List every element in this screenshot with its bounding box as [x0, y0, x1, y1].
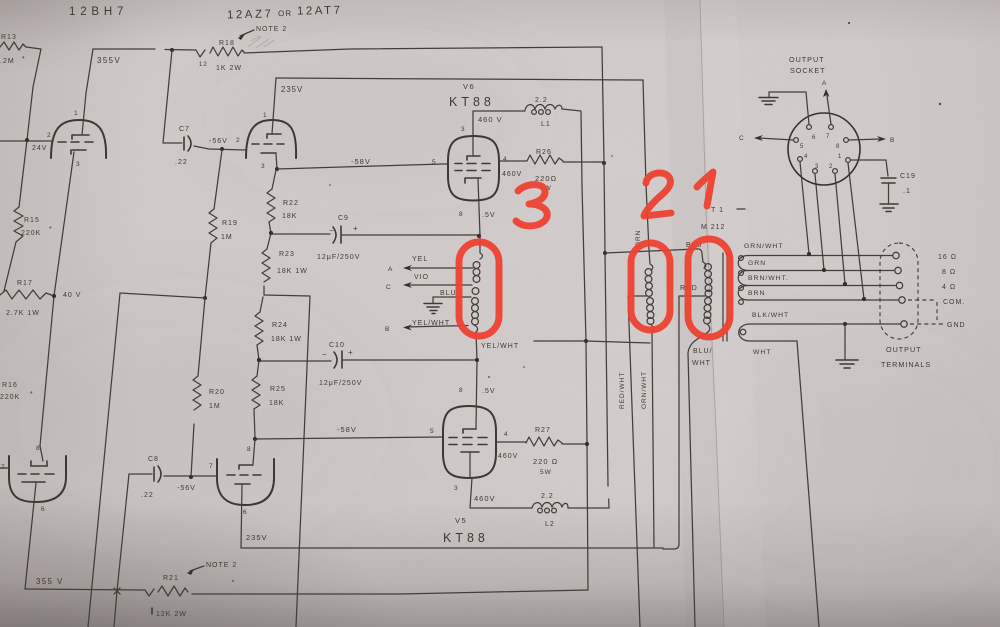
svg-text:R20: R20 — [209, 389, 225, 396]
svg-text:18K 1W: 18K 1W — [271, 336, 302, 343]
wire 235V bottom line — [241, 533, 663, 548]
tube V5 KT88 — [443, 406, 496, 545]
V2 grid dashes — [252, 143, 284, 145]
svg-text:12: 12 — [199, 62, 208, 68]
resistor R22 — [267, 170, 299, 233]
V6 cathode — [465, 178, 481, 183]
capacitor C7 — [163, 50, 191, 166]
red circle BLU coil — [688, 239, 730, 337]
svg-text:1M: 1M — [209, 403, 221, 410]
socket pin 6 — [807, 125, 817, 141]
svg-text:8: 8 — [836, 144, 840, 150]
svg-text:*: * — [49, 226, 53, 233]
V5 cathode — [461, 451, 479, 453]
svg-text:3: 3 — [76, 161, 81, 168]
svg-text:R18: R18 — [219, 40, 235, 47]
svg-text:16 Ω: 16 Ω — [938, 254, 957, 261]
svg-text:*: * — [22, 56, 26, 63]
resistor R16 — [0, 382, 34, 468]
wire B+ riser to L2 — [568, 47, 609, 508]
svg-text:RED/WHT: RED/WHT — [619, 372, 626, 409]
svg-text:+: + — [353, 224, 359, 233]
resistor R20 — [191, 298, 225, 477]
svg-text:C9: C9 — [338, 215, 349, 222]
junction grid bias — [220, 147, 224, 151]
tube V1 12BH7 upper half — [47, 110, 106, 168]
svg-text:BLK/WHT: BLK/WHT — [752, 312, 789, 319]
svg-text:12K 2W: 12K 2W — [156, 611, 187, 618]
svg-text:8: 8 — [459, 387, 464, 394]
red mark 3 — [516, 185, 547, 226]
secondary winding upper — [738, 256, 898, 305]
svg-text:12AT7: 12AT7 — [297, 4, 343, 17]
svg-text:OUTPUT: OUTPUT — [886, 345, 922, 354]
red circle ORN coil — [631, 243, 670, 330]
svg-text:8 Ω: 8 Ω — [942, 269, 956, 276]
svg-text:OR: OR — [278, 9, 292, 18]
wire C7 to pin2 grid with -56V — [194, 137, 246, 150]
svg-text:BRN: BRN — [748, 290, 765, 297]
junction x C8 lead — [114, 588, 120, 594]
node R27 / rail — [585, 442, 589, 446]
svg-text:4: 4 — [504, 431, 509, 438]
svg-text:5: 5 — [800, 144, 804, 150]
svg-text:.5V: .5V — [482, 212, 496, 219]
svg-text:WHT: WHT — [692, 360, 711, 367]
svg-text:7: 7 — [826, 134, 830, 140]
wire phase splitter stub — [88, 293, 205, 627]
node -58V / R25 — [253, 437, 257, 441]
resistor R26 — [500, 149, 604, 192]
paper crease — [664, 0, 766, 627]
capacitor C9 — [271, 215, 478, 261]
V4 grid dashes — [227, 474, 261, 476]
svg-text:2: 2 — [47, 132, 52, 139]
svg-text:235V: 235V — [281, 85, 303, 94]
wire V6 cathode to coil — [459, 179, 496, 236]
svg-text:5: 5 — [430, 428, 435, 435]
svg-text:GND: GND — [947, 322, 966, 329]
socket pin 1 — [838, 154, 850, 162]
svg-text:A: A — [388, 266, 393, 273]
svg-text:12AZ7: 12AZ7 — [227, 8, 274, 21]
capacitor C10 — [259, 342, 477, 387]
V6 grid dashes — [455, 164, 490, 171]
svg-text:−: − — [322, 350, 328, 359]
socket pin 5 — [794, 138, 805, 150]
svg-text:18K: 18K — [282, 213, 297, 220]
svg-text:R24: R24 — [272, 322, 288, 329]
transformer core lines — [723, 253, 727, 341]
pencil scribble near R18 — [248, 36, 274, 48]
svg-text:B: B — [890, 137, 895, 144]
svg-text:*: * — [30, 391, 34, 398]
V5 plate — [463, 429, 476, 433]
socket pin 7 — [826, 125, 833, 140]
svg-text:.1: .1 — [903, 188, 911, 195]
svg-text:SOCKET: SOCKET — [790, 66, 826, 75]
svg-text:C8: C8 — [148, 456, 159, 463]
wire R21 to B+ riser — [192, 590, 588, 594]
svg-text:YEL/WHT: YEL/WHT — [481, 343, 519, 350]
capacitor C8 — [114, 456, 161, 627]
svg-text:M 212: M 212 — [701, 224, 725, 231]
svg-text:C7: C7 — [179, 126, 190, 133]
inductor L2 — [532, 493, 568, 528]
svg-text:3: 3 — [815, 164, 819, 170]
node C10 right / coil bottom — [475, 358, 479, 362]
capacitor C19 — [851, 160, 916, 212]
resistor R24 — [255, 297, 302, 360]
terminal 16 ohm — [893, 252, 957, 261]
red circle YEL coil — [459, 242, 499, 336]
svg-text:BLU: BLU — [440, 290, 457, 297]
resistor R17 — [0, 280, 54, 317]
node R24/R25/C10 — [257, 358, 261, 362]
svg-text:6: 6 — [243, 509, 248, 516]
svg-text:R16: R16 — [2, 382, 18, 389]
wire L2 to V5 pin3 — [454, 478, 532, 508]
svg-text:2.7K 1W: 2.7K 1W — [6, 310, 40, 317]
wire R13 to R15 via 24V node — [19, 47, 41, 207]
svg-text:.22: .22 — [141, 492, 154, 499]
svg-text:R27: R27 — [535, 427, 551, 434]
resistor R25 — [252, 360, 286, 438]
svg-text:40 V: 40 V — [63, 292, 81, 299]
svg-text:6: 6 — [41, 506, 46, 513]
socket pin 3 — [813, 164, 820, 173]
svg-text:18K 1W: 18K 1W — [277, 268, 308, 275]
wire V4 cathode to 235V line — [241, 485, 242, 548]
coil T1 primary BLU — [688, 262, 712, 627]
inductor L1 — [525, 97, 562, 128]
svg-text:R23: R23 — [279, 251, 295, 258]
node C10 left — [257, 358, 261, 362]
svg-text:4: 4 — [804, 154, 808, 160]
wire WHT down — [797, 341, 819, 627]
wire C8 to pin7 with -56V — [164, 476, 217, 492]
resistor R15 — [14, 207, 53, 242]
svg-text:+: + — [348, 348, 354, 357]
arrow B — [849, 136, 895, 144]
wire 235V plate to ORN coil — [643, 80, 650, 264]
node 4ohm row — [843, 282, 847, 286]
tube V3 12BH7 lower half — [1, 445, 66, 513]
wire R18 to B+ corner — [244, 47, 602, 53]
tap B YEL/WHT — [385, 320, 468, 333]
svg-text:C: C — [386, 284, 392, 291]
svg-text:V6: V6 — [463, 82, 475, 91]
output socket circle — [788, 113, 860, 185]
node cathode V2 — [275, 167, 279, 171]
svg-text:5: 5 — [432, 159, 437, 166]
svg-text:ORN/WHT: ORN/WHT — [641, 371, 648, 409]
V3 grid dashes — [18, 473, 54, 475]
tap RED/WHT — [628, 296, 647, 627]
svg-text:220K: 220K — [21, 230, 41, 237]
svg-text:220 Ω: 220 Ω — [533, 457, 558, 466]
secondary winding lower — [739, 324, 900, 341]
svg-text:A: A — [822, 80, 827, 87]
wire R15 to R17 — [4, 242, 16, 291]
junction 24V — [25, 138, 29, 142]
svg-text:KT88: KT88 — [449, 95, 495, 109]
resistor R18 — [196, 40, 244, 72]
svg-text:YEL: YEL — [412, 256, 428, 263]
V6 plate — [467, 156, 480, 160]
svg-text:WHT: WHT — [753, 349, 771, 356]
svg-text:C19: C19 — [900, 173, 916, 180]
svg-text:3: 3 — [261, 163, 266, 170]
socket pin 2 — [829, 164, 837, 173]
red mark 2 — [644, 173, 671, 216]
V2 plate + stem to 235V — [267, 134, 281, 138]
terminal GND — [901, 321, 966, 329]
node R26 / B+ — [602, 161, 606, 165]
svg-text:-56V: -56V — [209, 138, 228, 145]
resistor R21 — [145, 575, 188, 618]
svg-text:460V: 460V — [474, 494, 496, 503]
svg-text:460V: 460V — [502, 171, 522, 178]
ground output — [836, 322, 858, 368]
tap BLU + ground — [424, 290, 471, 314]
svg-text:OUTPUT: OUTPUT — [789, 55, 825, 64]
svg-text:12BH7: 12BH7 — [69, 6, 128, 18]
wire 355V top line — [93, 49, 196, 65]
wire primary top to BLU coil — [605, 249, 703, 262]
svg-text:1: 1 — [838, 154, 842, 160]
svg-text:R25: R25 — [270, 386, 286, 393]
svg-text:.22: .22 — [175, 159, 188, 166]
svg-text:355V: 355V — [97, 56, 121, 65]
dashed terminal outline — [880, 243, 918, 339]
node R22/R23/C9 — [269, 231, 273, 235]
svg-text:NOTE 2: NOTE 2 — [256, 26, 287, 33]
svg-text:6: 6 — [812, 135, 816, 141]
wire R25 to V4 plate — [253, 439, 255, 464]
svg-text:BRN/WHT.: BRN/WHT. — [748, 275, 789, 282]
V3 grid wire pin7 — [0, 467, 9, 469]
label 12AZ7 or 12AT7 — [227, 4, 343, 21]
node primary top — [603, 251, 607, 255]
svg-text:NOTE 2: NOTE 2 — [206, 562, 237, 569]
svg-text:12μF/250V: 12μF/250V — [317, 254, 360, 261]
svg-text:1M: 1M — [221, 234, 233, 241]
V3 cathode — [22, 481, 45, 483]
coil T1 primary ORN — [645, 264, 654, 548]
arrow C — [739, 135, 793, 142]
svg-text:VIO: VIO — [414, 274, 429, 281]
resistor R23 — [262, 233, 308, 295]
wire 355V bottom rail — [25, 577, 145, 590]
svg-text:8: 8 — [459, 211, 464, 218]
terminal 4 ohm — [896, 282, 956, 291]
svg-text:R22: R22 — [283, 200, 299, 207]
dashed COM-GND strap — [908, 300, 943, 324]
node C9 right — [477, 234, 481, 238]
pen dash near T1 — [737, 208, 745, 210]
note 2 callout (bottom) — [187, 562, 237, 575]
tap RED — [663, 285, 705, 549]
svg-text:R19: R19 — [222, 220, 238, 227]
wire V3 cathode to 355V rail — [25, 483, 36, 589]
tap C VIO — [386, 274, 472, 291]
svg-text:4: 4 — [503, 156, 508, 163]
tube V2 12AZ7 upper half — [246, 112, 296, 170]
socket pin 4 — [798, 154, 809, 161]
svg-text:1: 1 — [74, 110, 79, 117]
V1 grid dashes — [58, 141, 93, 143]
terminal COM — [899, 297, 965, 306]
wire R23 bottom to splitter column — [264, 295, 310, 627]
svg-text:18K: 18K — [269, 400, 284, 407]
tube V6 KT88 — [448, 82, 499, 201]
svg-text:12μF/250V: 12μF/250V — [319, 380, 362, 387]
svg-text:C10: C10 — [329, 342, 345, 349]
svg-text:8: 8 — [247, 446, 252, 453]
node R19/R20 — [203, 296, 207, 300]
svg-text:R21: R21 — [163, 575, 179, 582]
svg-text:2: 2 — [236, 137, 241, 144]
svg-text:-58V: -58V — [337, 425, 357, 434]
svg-text:L1: L1 — [541, 121, 551, 128]
svg-text:R17: R17 — [17, 280, 33, 287]
V1 cathode — [71, 150, 86, 154]
svg-text:R13: R13 — [1, 34, 17, 41]
socket ground — [759, 92, 809, 124]
svg-text:1: 1 — [263, 112, 268, 119]
paper specks — [232, 22, 941, 582]
V3 plate — [31, 461, 47, 466]
svg-text:4 Ω: 4 Ω — [942, 284, 956, 291]
wire 24V grid line — [0, 141, 52, 152]
svg-text:1K 2W: 1K 2W — [216, 65, 242, 72]
node COM row — [862, 297, 866, 301]
V2 cathode — [261, 152, 276, 154]
tap A YEL — [388, 256, 473, 273]
svg-text:T 1: T 1 — [711, 207, 724, 214]
svg-text:KT88: KT88 — [443, 531, 489, 545]
wire V1 cathode down to 40V node and lower plate — [40, 152, 74, 446]
svg-text:2: 2 — [829, 164, 833, 170]
svg-text:355 V: 355 V — [36, 577, 64, 586]
svg-text:GRN/WHT: GRN/WHT — [744, 243, 783, 250]
svg-text:R15: R15 — [24, 217, 40, 224]
V5 top stem — [459, 360, 496, 429]
svg-text:24V: 24V — [32, 145, 47, 152]
resistor R19 — [205, 150, 238, 298]
svg-text:.5V: .5V — [482, 388, 496, 395]
arrow A — [822, 80, 831, 124]
svg-text:COM.: COM. — [943, 299, 965, 306]
resistor R13 — [0, 34, 26, 65]
svg-text:235V: 235V — [246, 533, 268, 542]
note 2 callout (top) — [238, 26, 287, 40]
svg-text:GRN: GRN — [748, 260, 766, 267]
svg-text:3: 3 — [454, 485, 459, 492]
svg-text:7: 7 — [209, 463, 214, 470]
coil T1 primary left (YEL) — [472, 236, 483, 360]
svg-text:2.2: 2.2 — [541, 493, 554, 500]
red mark 1 — [697, 172, 713, 206]
svg-text:460V: 460V — [498, 453, 518, 460]
wire YEL/WHT feedback line — [481, 341, 650, 350]
node 40V — [52, 292, 82, 299]
svg-text:2.2: 2.2 — [535, 97, 548, 104]
junction C7 top — [170, 48, 174, 52]
V6 pin3 plate stem + 460V — [461, 111, 525, 155]
socket drop wires — [800, 162, 864, 299]
svg-text:3: 3 — [461, 126, 466, 133]
tube V4 12AZ7 lower half — [209, 446, 274, 516]
svg-text:TERMINALS: TERMINALS — [881, 360, 931, 369]
svg-text:L2: L2 — [545, 521, 555, 528]
svg-text:5W: 5W — [540, 469, 552, 476]
wire -58V upper — [277, 157, 448, 169]
wire L1 rail riser — [562, 109, 588, 590]
junction C8/R20 — [189, 475, 193, 479]
V4 cathode — [235, 483, 250, 485]
wire 235V plate line — [276, 78, 643, 80]
svg-text:-58V: -58V — [351, 157, 371, 166]
svg-text:-56V: -56V — [177, 485, 196, 492]
svg-text:.2M: .2M — [0, 58, 15, 65]
V4 plate — [239, 465, 253, 469]
V1 plate + stem to 355V — [72, 135, 89, 139]
svg-text:460 V: 460 V — [478, 115, 503, 124]
node 8ohm row — [822, 268, 826, 272]
socket pin 8 — [836, 138, 848, 150]
svg-text:BLU/: BLU/ — [693, 348, 713, 355]
wire -58V lower — [255, 425, 443, 439]
svg-text:B: B — [385, 326, 390, 333]
svg-text:V5: V5 — [455, 516, 467, 525]
V5 grid dashes — [449, 438, 487, 445]
terminal 8 ohm — [895, 267, 956, 276]
node YEL/WHT rail — [584, 339, 588, 343]
svg-text:220K: 220K — [0, 394, 20, 401]
resistor R27 — [496, 427, 587, 476]
svg-text:C: C — [739, 135, 745, 142]
node 16ohm row — [807, 252, 811, 256]
